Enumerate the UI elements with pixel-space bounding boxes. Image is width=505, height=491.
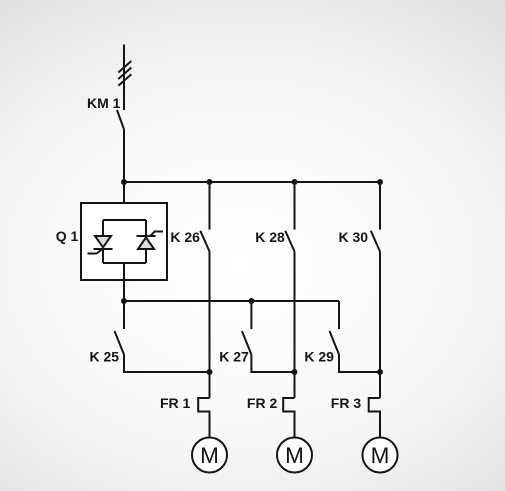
svg-text:FR 3: FR 3 (331, 395, 362, 411)
svg-text:M: M (371, 443, 390, 468)
svg-text:Q 1: Q 1 (56, 228, 79, 244)
svg-text:K 29: K 29 (304, 349, 334, 365)
svg-text:K 25: K 25 (90, 349, 120, 365)
svg-text:M: M (200, 443, 219, 468)
svg-text:K 26: K 26 (170, 229, 200, 245)
svg-text:K 27: K 27 (219, 349, 249, 365)
svg-text:KM 1: KM 1 (87, 95, 121, 111)
svg-text:FR 2: FR 2 (247, 395, 278, 411)
svg-text:K 28: K 28 (255, 229, 285, 245)
svg-text:M: M (285, 443, 304, 468)
svg-text:FR 1: FR 1 (160, 395, 191, 411)
svg-text:K 30: K 30 (339, 229, 369, 245)
